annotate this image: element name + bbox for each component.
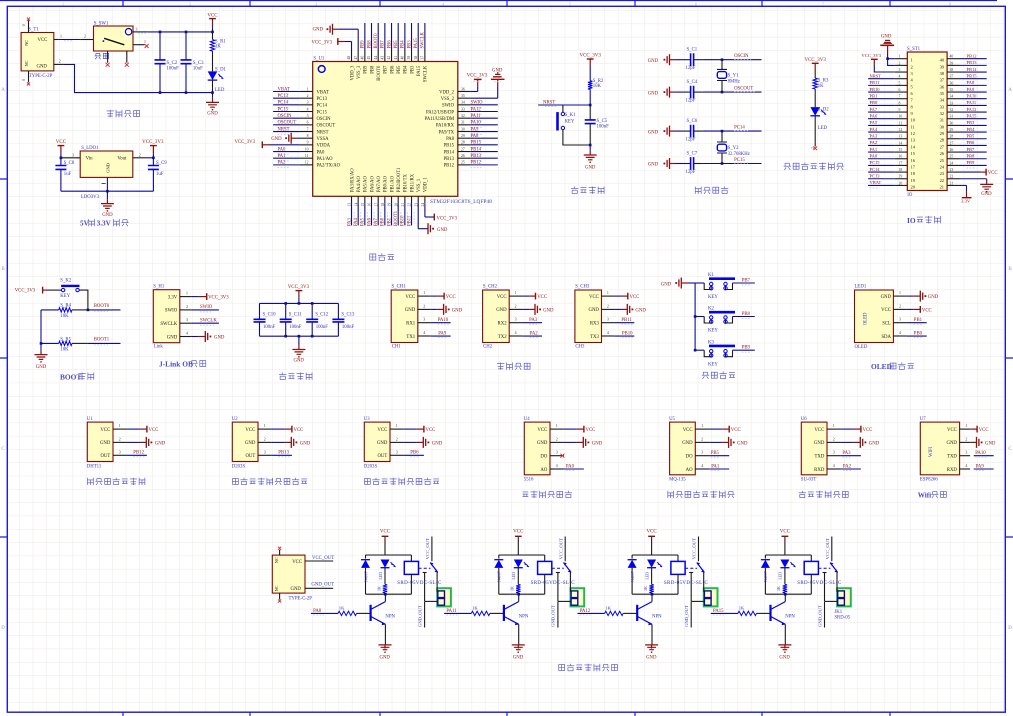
MCU right pin 27 PB14 [458, 151, 471, 153]
svg-text:VCC: VCC [537, 295, 547, 300]
svg-text:S_Y2: S_Y2 [728, 146, 740, 151]
pin VCC -> VCC_OUT [305, 560, 333, 562]
svg-text:OUT: OUT [245, 454, 255, 459]
svg-text:12: 12 [305, 161, 309, 165]
svg-text:2: 2 [899, 304, 901, 308]
svg-text:2: 2 [59, 60, 61, 64]
svg-text:GND: GND [155, 441, 166, 446]
MCU right pin 33 PA12/USB/DP [458, 111, 471, 113]
svg-text:A: A [1, 88, 5, 93]
svg-text:PA3: PA3 [347, 217, 352, 226]
svg-text:D: D [1, 626, 5, 631]
svg-text:BOOT0: BOOT0 [377, 65, 382, 81]
svg-text:PA1: PA1 [870, 147, 878, 152]
svg-text:2: 2 [307, 94, 309, 98]
wire green pin2 to GND_OUT [558, 600, 571, 602]
svg-text:GND: GND [437, 228, 448, 233]
ST1 pin 18 (left) [895, 171, 908, 173]
svg-text:VBAT: VBAT [870, 180, 882, 185]
svg-text:PB9: PB9 [742, 346, 751, 351]
svg-text:VCC_OUT: VCC_OUT [312, 556, 334, 561]
caption 复位电路 [571, 187, 578, 194]
svg-text:VCC: VCC [780, 530, 791, 535]
svg-text:GND: GND [648, 130, 659, 135]
wire green pin2 to GND_OUT [425, 600, 438, 602]
MCU bottom pin 16 PA6/AO [371, 196, 373, 203]
svg-text:PA3: PA3 [842, 451, 851, 456]
caption 按键电路 [702, 372, 709, 379]
svg-text:GND: GND [102, 213, 113, 218]
svg-text:VCC: VCC [56, 140, 67, 145]
svg-text:NC: NC [274, 557, 279, 563]
power VCC [841, 428, 854, 430]
svg-text:LED: LED [215, 88, 225, 93]
ST1 pin 5 (left) [895, 84, 908, 86]
svg-text:15: 15 [899, 148, 903, 152]
svg-text:PA3: PA3 [870, 134, 878, 139]
svg-text:VCC_OUT: VCC_OUT [425, 538, 430, 559]
svg-text:GND: GND [585, 165, 596, 170]
svg-text:TXD: TXD [947, 455, 957, 460]
ground GND [212, 93, 214, 98]
svg-text:33: 33 [950, 101, 954, 105]
top/bottom rails [366, 554, 412, 556]
svg-text:PB9: PB9 [967, 160, 976, 165]
capacitor C3 10uF [185, 32, 187, 60]
svg-text:3: 3 [136, 28, 138, 32]
svg-text:GND: GND [981, 192, 992, 197]
switch contact dashed [685, 567, 697, 569]
svg-text:VCC: VCC [630, 295, 640, 300]
svg-text:BOOT0: BOOT0 [94, 304, 110, 309]
MCU right pin 26 PB13 [458, 157, 471, 159]
pin1 to GND [907, 295, 914, 297]
svg-text:PC13: PC13 [870, 174, 881, 179]
MCU right pin 32 PA11/USB/DM [458, 117, 471, 119]
svg-text:GND: GND [452, 308, 463, 313]
svg-text:TX2: TX2 [498, 335, 507, 340]
MCU left pin 5 OSCIN [300, 117, 313, 119]
svg-text:PB15: PB15 [444, 144, 455, 149]
svg-text:GND: GND [588, 308, 599, 313]
svg-text:GND: GND [492, 68, 503, 73]
reset circuit 复位电路 [538, 54, 609, 194]
svg-text:1: 1 [965, 424, 967, 428]
svg-text:GND: GND [496, 308, 507, 313]
run indicator LED circuit [784, 58, 844, 170]
svg-text:PB0/AO: PB0/AO [384, 175, 389, 192]
svg-text:NC: NC [24, 60, 29, 66]
net PA10 [431, 322, 451, 324]
svg-text:PB0: PB0 [914, 331, 923, 336]
resistor 1K (vertical) [784, 568, 786, 585]
MCU left pin 8 VSSA [300, 137, 313, 139]
svg-text:N4007: N4007 [498, 571, 502, 582]
svg-text:29: 29 [461, 134, 465, 138]
svg-text:S_CH3: S_CH3 [575, 285, 590, 290]
green terminal connector [704, 588, 718, 606]
svg-text:VCC: VCC [38, 38, 48, 43]
svg-text:SRD-05VDC-SL-C: SRD-05VDC-SL-C [397, 581, 442, 586]
svg-text:GND: GND [291, 587, 302, 592]
svg-text:PB7: PB7 [742, 278, 751, 283]
power VCC [272, 428, 285, 430]
svg-text:PA2/TX/AO: PA2/TX/AO [317, 164, 341, 169]
svg-text:GND: GND [100, 441, 111, 446]
svg-text:PC14: PC14 [734, 126, 745, 131]
svg-text:MQ-135: MQ-135 [669, 478, 686, 483]
svg-text:37: 37 [420, 56, 424, 60]
top/bottom rails [765, 554, 811, 556]
svg-text:PA1: PA1 [278, 154, 287, 159]
svg-text:10: 10 [899, 115, 903, 119]
relay coil box [544, 555, 546, 561]
MCU left pin 6 OSCOUT [300, 124, 313, 126]
svg-text:S_C5: S_C5 [597, 119, 608, 124]
T1 pin2 wire down to bottom rail [54, 63, 64, 65]
svg-text:VCC: VCC [731, 428, 741, 433]
svg-text:GND_OUT: GND_OUT [311, 583, 334, 588]
svg-text:VCC: VCC [646, 530, 657, 535]
MCU bottom pin 18 PB0/AO [384, 196, 386, 203]
svg-text:4: 4 [556, 464, 558, 468]
ST1 pin 22 (right) [947, 178, 959, 180]
caption 串口电路 [497, 363, 504, 370]
svg-text:PA5/AO: PA5/AO [364, 176, 369, 193]
svg-text:KEY: KEY [708, 295, 718, 300]
transistor NPN [370, 605, 372, 621]
svg-text:2: 2 [556, 437, 558, 441]
caption [365, 479, 371, 485]
ground GND [784, 645, 786, 649]
svg-text:VSS_2: VSS_2 [441, 97, 455, 102]
svg-text:PB14: PB14 [967, 67, 978, 72]
capacitor C9 1uF [152, 158, 154, 166]
svg-text:1: 1 [607, 291, 609, 295]
relay coil box [410, 555, 412, 561]
wire green pin1 to blade [703, 573, 705, 592]
svg-text:3: 3 [307, 101, 309, 105]
svg-text:AO: AO [686, 468, 693, 473]
svg-text:SWCLK: SWCLK [421, 31, 426, 48]
svg-text:GND: GND [869, 441, 880, 446]
svg-text:PC14: PC14 [870, 167, 881, 172]
svg-text:40: 40 [400, 56, 404, 60]
svg-text:PB3: PB3 [407, 40, 412, 49]
svg-text:S_CH1: S_CH1 [392, 285, 407, 290]
svg-text:5: 5 [307, 114, 309, 118]
svg-text:PA5: PA5 [361, 217, 366, 226]
caption 主芯片 [370, 254, 376, 260]
svg-text:OUT: OUT [377, 454, 387, 459]
svg-text:GND: GND [646, 656, 657, 661]
svg-text:32: 32 [940, 111, 944, 116]
svg-text:PA3: PA3 [529, 318, 538, 323]
VCC_OUT wire [431, 537, 433, 562]
svg-text:S_D2: S_D2 [818, 108, 830, 113]
svg-text:S_C6: S_C6 [687, 119, 698, 124]
ST1 pin 11 (left) [895, 124, 908, 126]
svg-text:N4007: N4007 [764, 571, 768, 582]
svg-text:GND: GND [377, 441, 388, 446]
svg-text:PA5: PA5 [870, 120, 878, 125]
relay coil box [677, 555, 679, 561]
svg-text:PA7: PA7 [374, 217, 379, 226]
svg-text:IO: IO [907, 193, 913, 198]
svg-text:VCC: VCC [881, 308, 891, 313]
svg-text:5: 5 [899, 81, 901, 85]
throw contact T [423, 572, 427, 574]
svg-text:GND: GND [293, 358, 304, 363]
svg-text:13: 13 [899, 135, 903, 139]
svg-text:PB6: PB6 [387, 40, 392, 49]
svg-text:A: A [1008, 88, 1012, 93]
svg-text:3: 3 [899, 318, 901, 322]
ST1 pin 32 (right) [947, 111, 959, 113]
LDO GND pin and bottom rail [106, 177, 108, 181]
ST1 pin 37 (right) [947, 78, 959, 80]
svg-text:1K: 1K [472, 606, 478, 611]
switch SW1 开关 [94, 26, 134, 51]
svg-text:1: 1 [556, 424, 558, 428]
key K2 [694, 315, 697, 318]
module U3 D203S [364, 422, 390, 461]
svg-text:NRST: NRST [317, 130, 329, 135]
svg-text:U1: U1 [87, 417, 93, 422]
svg-text:GND: GND [682, 441, 693, 446]
MCU left pin 1 VBAT [300, 91, 313, 93]
svg-text:31: 31 [940, 118, 944, 123]
svg-text:PA3/RX/AO: PA3/RX/AO [350, 168, 355, 192]
VCC_OUT wire [564, 537, 566, 562]
ST1 VCC power at pin 23 [960, 171, 982, 173]
svg-text:26: 26 [950, 148, 954, 152]
svg-text:NRST: NRST [870, 74, 882, 79]
svg-text:PA11/USB/DM: PA11/USB/DM [425, 117, 455, 122]
svg-text:PA15: PA15 [967, 114, 978, 119]
ground [298, 336, 300, 344]
svg-text:PA9: PA9 [438, 331, 447, 336]
MCU top pin 37 SWCLK [424, 50, 426, 62]
MCU top pin 38 PA15 [417, 50, 419, 62]
svg-text:36: 36 [461, 87, 465, 91]
svg-text:2: 2 [607, 304, 609, 308]
net PA1 [709, 468, 729, 470]
switch contact dashed [818, 567, 830, 569]
capacitor S_C12 100nF [311, 303, 313, 319]
svg-text:PA1: PA1 [711, 464, 720, 469]
svg-text:PA4/AO: PA4/AO [357, 176, 362, 193]
svg-text:20: 20 [899, 181, 903, 185]
ST1 GND at pin 22 [960, 178, 987, 180]
ST1 pin 21 (right) [947, 184, 959, 186]
svg-text:10K: 10K [60, 314, 69, 319]
svg-text:VDDA: VDDA [317, 144, 331, 149]
pin GND -> GND_OUT [305, 587, 333, 589]
svg-text:100nF: 100nF [597, 125, 610, 130]
LED [647, 560, 656, 568]
svg-text:S_C2: S_C2 [167, 61, 178, 66]
svg-text:U5: U5 [669, 417, 675, 422]
svg-text:1: 1 [701, 424, 703, 428]
svg-text:2: 2 [423, 304, 425, 308]
svg-text:GND: GND [106, 162, 111, 173]
svg-text:S_Y1: S_Y1 [728, 73, 740, 78]
svg-text:GND: GND [271, 137, 282, 142]
power VCC [970, 428, 977, 430]
svg-text:GND: GND [37, 64, 48, 69]
svg-text:3: 3 [186, 318, 188, 322]
power GND [522, 308, 529, 310]
svg-text:32: 32 [950, 108, 954, 112]
wire green pin1 to blade [436, 573, 438, 592]
svg-text:NC: NC [24, 40, 29, 46]
crystal Y1 8MHz [721, 58, 724, 61]
svg-text:GND: GND [513, 656, 524, 661]
relay control circuit [272, 530, 851, 672]
svg-text:1: 1 [396, 424, 398, 428]
ST1 pin 26 (right) [947, 151, 959, 153]
svg-text:KEY: KEY [708, 362, 718, 367]
svg-text:S_C13: S_C13 [341, 312, 355, 317]
resistor 1K (vertical) [384, 568, 386, 585]
ST1 pin 28 (right) [947, 138, 959, 140]
svg-text:39: 39 [950, 61, 954, 65]
T1 NC stubs [28, 20, 30, 32]
connector S_CH2 [483, 290, 510, 343]
pin3 net PB1 [907, 322, 927, 324]
MCU top pin 46 PB9 [364, 50, 366, 62]
svg-text:24: 24 [950, 161, 954, 165]
svg-text:4: 4 [607, 331, 609, 335]
svg-text:3: 3 [396, 450, 398, 454]
svg-text:SWIO: SWIO [442, 104, 455, 109]
caption [88, 478, 94, 485]
svg-text:Vin: Vin [86, 156, 94, 161]
net PA9 [974, 468, 994, 470]
svg-text:1K: 1K [511, 586, 515, 591]
svg-text:2: 2 [515, 304, 517, 308]
svg-text:PB1: PB1 [914, 318, 923, 323]
resistor R3 1K [813, 78, 817, 89]
svg-text:PB12: PB12 [967, 54, 977, 59]
VCC_OUT wire [698, 537, 700, 562]
MCU right pin 28 PB15 [458, 144, 471, 146]
power VCC [404, 428, 417, 430]
svg-text:LED1: LED1 [855, 285, 867, 290]
svg-text:GND: GND [245, 441, 256, 446]
svg-text:1K: 1K [739, 606, 745, 611]
power VCC [614, 295, 621, 297]
svg-text:1: 1 [307, 87, 309, 91]
svg-text:PA0: PA0 [870, 154, 878, 159]
crystal circuit 晶振电路 [648, 48, 762, 194]
svg-text:3: 3 [701, 451, 703, 455]
MCU bottom power: VCC_3V3 at VDD_1 [424, 203, 426, 217]
svg-text:PA12: PA12 [580, 609, 591, 614]
filter circuit C10-C13 [254, 285, 356, 380]
svg-text:PA2: PA2 [870, 140, 878, 145]
svg-text:VCC: VCC [292, 560, 302, 565]
module U7 ESP8266 [920, 422, 959, 475]
svg-text:VCC_3V3: VCC_3V3 [861, 53, 881, 58]
svg-text:BOOT1: BOOT1 [94, 338, 110, 343]
svg-text:PA8: PA8 [313, 609, 322, 614]
svg-text:22: 22 [940, 178, 944, 183]
svg-text:10uF: 10uF [193, 66, 203, 71]
power GND [431, 308, 438, 310]
svg-text:12pF: 12pF [686, 138, 696, 143]
svg-text:PA0: PA0 [566, 464, 575, 469]
svg-text:BOOT1: BOOT1 [394, 210, 399, 226]
switch contact dashed [419, 567, 431, 569]
wire green pin1 to blade [569, 573, 571, 592]
net PA2 [522, 335, 542, 337]
net PB6 [404, 454, 424, 456]
MCU bottom pin 22 PB11/RX [411, 196, 413, 203]
left bus to ground [40, 310, 42, 351]
svg-text:VCC: VCC [513, 530, 524, 535]
switch blade [697, 563, 705, 573]
svg-text:GND: GND [635, 308, 646, 313]
svg-text:PA9/TX: PA9/TX [439, 130, 455, 135]
svg-text:25: 25 [950, 155, 954, 159]
svg-text:GND_OUT: GND_OUT [817, 605, 822, 627]
ST1 pin 34 (right) [947, 98, 959, 100]
svg-text:PA2: PA2 [843, 464, 852, 469]
MCU left pin 7 NRST [300, 131, 313, 133]
svg-text:LED: LED [379, 572, 383, 580]
svg-text:N4007: N4007 [364, 571, 368, 582]
MCU U1 STM32F103C8T6 [235, 23, 505, 260]
svg-text:1: 1 [899, 55, 901, 59]
svg-text:NPN: NPN [785, 615, 795, 620]
LED D1 [208, 71, 218, 80]
power GND [614, 308, 621, 310]
svg-text:PB6: PB6 [390, 65, 395, 74]
svg-text:GND: GND [648, 59, 659, 64]
svg-text:OLED: OLED [871, 362, 892, 371]
svg-text:PA10/RX: PA10/RX [436, 124, 455, 129]
svg-text:1uF: 1uF [156, 172, 164, 177]
svg-text:1: 1 [264, 424, 266, 428]
svg-text:VDD_3: VDD_3 [350, 65, 355, 80]
svg-text:3: 3 [833, 451, 835, 455]
T1 pin1 wire to SW1 pin2 [54, 39, 58, 41]
svg-text:S_C4: S_C4 [687, 80, 698, 85]
svg-text:30: 30 [461, 127, 465, 131]
module U6 SU-03T [801, 422, 827, 475]
net PA2 [841, 468, 861, 470]
transistor NPN [769, 605, 771, 621]
svg-text:VSS_1: VSS_1 [417, 178, 422, 192]
ST1 pin 3 (left) [895, 71, 908, 73]
svg-text:TX1: TX1 [406, 335, 415, 340]
MCU bottom pin 23 VSS_1 [417, 196, 419, 203]
svg-text:4: 4 [423, 331, 425, 335]
svg-text:S_C10: S_C10 [263, 312, 277, 317]
ground GND [517, 645, 519, 649]
svg-text:OSCIN: OSCIN [734, 54, 749, 59]
svg-text:PA6: PA6 [870, 114, 878, 119]
svg-text:PB3: PB3 [410, 65, 415, 74]
svg-text:PA4: PA4 [870, 127, 878, 132]
svg-text:4: 4 [965, 464, 967, 468]
svg-text:PB13: PB13 [444, 157, 455, 162]
svg-text:VDD_1: VDD_1 [424, 177, 429, 192]
svg-text:JK1: JK1 [834, 610, 842, 615]
svg-text:PA8: PA8 [967, 80, 975, 85]
